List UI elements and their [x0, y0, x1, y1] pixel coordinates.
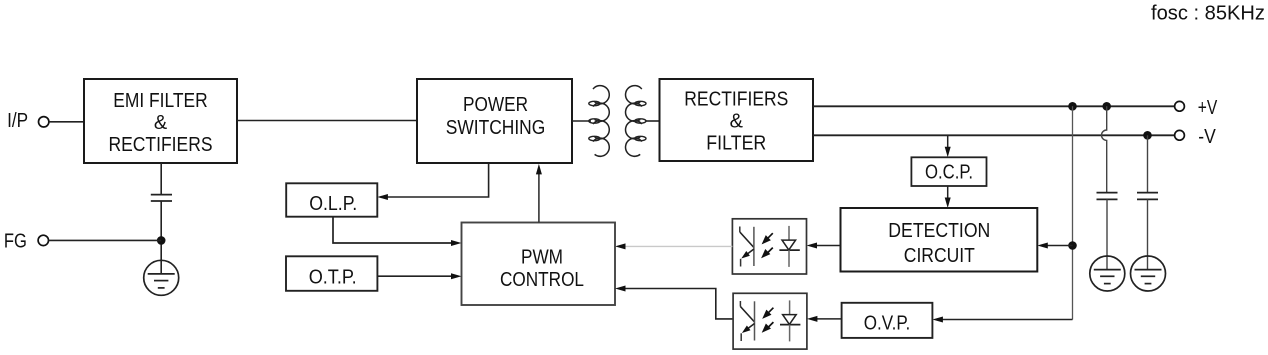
ground (earth) for C1 [1090, 256, 1125, 291]
svg-text:DETECTION: DETECTION [888, 220, 990, 242]
junction on -V rail (capacitor) [1143, 131, 1152, 140]
optocoupler U1 phototransistor [739, 227, 753, 267]
svg-text:O.T.P.: O.T.P. [309, 266, 357, 288]
block POWER SWITCHING [417, 79, 572, 163]
svg-text:O.L.P.: O.L.P. [309, 193, 357, 215]
capacitor C1 [1097, 193, 1118, 200]
ground (earth) for C2 [1131, 256, 1166, 291]
svg-text:CONTROL: CONTROL [500, 269, 584, 291]
svg-text:RECTIFIERS: RECTIFIERS [109, 134, 213, 156]
wire capacitor C3 to FG node [160, 201, 162, 274]
svg-text:RECTIFIERS: RECTIFIERS [684, 89, 788, 111]
block O.C.P. [911, 157, 986, 186]
wire +V to capacitor C1 with hop over -V [1102, 106, 1107, 192]
terminal I/P [39, 117, 49, 127]
junction on +V rail (capacitor) [1102, 102, 1111, 111]
junction on +V rail (sense line) [1068, 102, 1077, 111]
wire -V rail [813, 134, 1174, 136]
wire FG terminal to junction [49, 239, 162, 241]
svg-text:FILTER: FILTER [706, 133, 766, 155]
wire EMI to POWER SWITCHING [237, 120, 417, 122]
wire transformer secondary to rectifiers [645, 120, 659, 122]
wire PWM CONTROL to POWER SWITCHING [538, 169, 540, 223]
wire optocoupler U2 to PWM CONTROL [620, 289, 733, 319]
wire junction to DETECTION CIRCUIT input [1042, 245, 1073, 247]
optocoupler U2 LED [780, 300, 800, 341]
optocoupler U2 box [733, 293, 807, 349]
wire DETECTION CIRCUIT to optocoupler U1 [811, 245, 841, 247]
wire O.L.P. to PWM CONTROL [333, 217, 458, 243]
wire capacitor C2 to ground [1147, 199, 1149, 269]
terminal -V [1175, 130, 1185, 140]
block DETECTION CIRCUIT [841, 208, 1038, 272]
transformer T1 secondary winding [626, 86, 642, 104]
block O.V.P. [842, 303, 933, 338]
wire O.T.P. to PWM CONTROL [377, 275, 457, 277]
svg-text:CIRCUIT: CIRCUIT [904, 245, 975, 267]
wire capacitor C1 to ground [1106, 199, 1108, 269]
capacitor C2 [1137, 193, 1158, 200]
svg-text:POWER: POWER [463, 94, 528, 116]
wire EMI FILTER to capacitor C3 [160, 163, 162, 195]
block O.L.P. [286, 183, 377, 216]
svg-text:+V: +V [1198, 97, 1218, 119]
wire O.V.P. to optocoupler U2 [811, 318, 842, 320]
wire POWER SWITCHING to O.L.P. [382, 164, 489, 197]
wire O.C.P. to DETECTION CIRCUIT [947, 186, 949, 203]
transformer T1 primary winding [593, 86, 609, 104]
svg-text:SWITCHING: SWITCHING [446, 117, 546, 139]
block EMI FILTER & RECTIFIERS [84, 79, 237, 163]
wire -V rail to O.C.P. [947, 135, 949, 152]
block O.T.P. [286, 256, 377, 291]
optocoupler U1 LED [779, 226, 799, 267]
wire POWER SWITCHING to transformer primary [572, 120, 591, 122]
svg-text:&: & [154, 112, 168, 134]
wire +V rail [813, 105, 1174, 107]
svg-text:fosc : 85KHz: fosc : 85KHz [1151, 3, 1265, 25]
terminal FG [38, 235, 48, 245]
terminal +V [1175, 101, 1185, 111]
optocoupler U2 phototransistor [740, 301, 754, 341]
wire optocoupler U1 to PWM CONTROL [625, 245, 732, 247]
ground (earth) FG [144, 260, 179, 295]
junction FG node [157, 236, 166, 245]
svg-text:PWM: PWM [521, 246, 563, 268]
optocoupler U2 light arrows [759, 308, 773, 336]
wire -V to capacitor C2 [1147, 135, 1149, 192]
svg-text:&: & [730, 111, 744, 133]
svg-text:I/P: I/P [7, 110, 28, 132]
svg-text:O.V.P.: O.V.P. [864, 312, 911, 334]
optocoupler U1 light arrows [759, 233, 773, 261]
block PWM CONTROL [462, 223, 616, 306]
svg-text:FG: FG [4, 230, 27, 252]
wire sense line to O.V.P. [937, 319, 1073, 321]
optocoupler U1 box [732, 219, 806, 274]
svg-text:EMI FILTER: EMI FILTER [113, 90, 208, 112]
wire +V sense line vertical [1072, 106, 1074, 319]
junction sense line to detection [1068, 241, 1077, 250]
block RECTIFIERS & FILTER [660, 79, 814, 161]
svg-text:-V: -V [1198, 126, 1216, 148]
svg-text:O.C.P.: O.C.P. [925, 162, 973, 184]
capacitor C3 (Y-cap) [151, 195, 172, 201]
wire I/P to EMI filter [49, 121, 84, 123]
